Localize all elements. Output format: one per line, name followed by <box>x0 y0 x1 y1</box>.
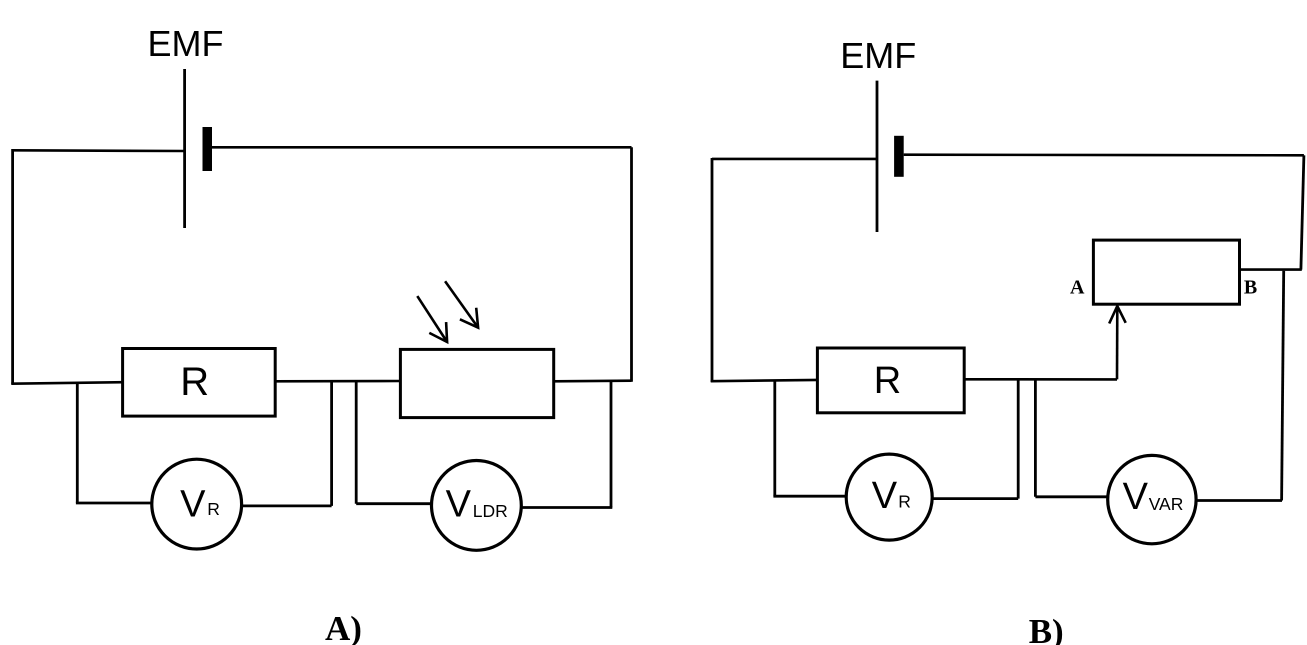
potentiometer box (B) <box>1093 240 1239 304</box>
resistor R box (A) <box>123 349 276 417</box>
wire: jog from pot terminal B to outer right vertical <box>1240 268 1302 271</box>
svg-text:A): A) <box>325 609 362 645</box>
wire: LDR right lead to right side (A) <box>554 379 632 382</box>
svg-text:B): B) <box>1029 612 1064 645</box>
wire: V_VAR left horizontal lead (B) <box>1035 495 1108 498</box>
wire: left side vertical (B) <box>711 158 714 382</box>
wire: inner right vertical down to V_VAR (B) <box>1282 271 1284 501</box>
wire: outer right vertical (B) <box>1301 155 1304 269</box>
wire: right side vertical (A) <box>630 147 633 381</box>
wire: V_R left horizontal lead (A) <box>76 502 152 505</box>
LDR light arrow 2 (head) <box>460 308 478 328</box>
potentiometer wiper arrow (shaft) <box>1116 307 1119 380</box>
wire: V_LDR right horizontal lead (A) <box>522 506 613 509</box>
svg-text:EMF: EMF <box>148 23 224 64</box>
svg-text:EMF: EMF <box>840 35 916 76</box>
potentiometer wiper arrow (head) <box>1109 306 1126 324</box>
wire: bottom-left horizontal into R (A) <box>11 382 123 384</box>
svg-text:VAR: VAR <box>1149 494 1184 514</box>
battery cell B: long thin plate <box>876 81 879 232</box>
battery cell A: long thin plate <box>183 69 186 228</box>
svg-text:V: V <box>1123 476 1149 518</box>
wire: drop from node to V_VAR left lead (B) <box>1034 380 1037 497</box>
voltmeter V_R circle (B) <box>846 454 932 540</box>
svg-text:LDR: LDR <box>473 501 508 521</box>
LDR light arrow 1 (head) <box>429 322 447 342</box>
wire: V_R right horizontal lead (A) <box>242 504 332 507</box>
svg-text:V: V <box>446 484 472 526</box>
battery cell A: short thick plate <box>203 127 213 171</box>
wire: V_VAR right horizontal lead (B) <box>1196 499 1283 502</box>
svg-text:R: R <box>874 360 901 402</box>
svg-text:R: R <box>898 491 911 511</box>
wire: node between R and LDR (A) <box>275 380 400 383</box>
wire: drop from node to V_R right lead (A) <box>330 381 333 506</box>
svg-text:B: B <box>1244 277 1257 299</box>
wire: V_R left horizontal lead (B) <box>773 495 846 498</box>
wire: bottom-left horizontal into R (B) <box>711 380 819 381</box>
svg-text:V: V <box>180 484 206 526</box>
wire: V_LDR left horizontal lead (A) <box>356 502 431 505</box>
LDR light arrow 1 (shaft) <box>417 296 447 342</box>
wire: drop from right side to V_LDR right lead (A) <box>610 381 613 508</box>
wire: R right lead to wiper riser (B) <box>964 378 1117 381</box>
svg-text:A: A <box>1070 276 1085 298</box>
wire: battery B negative plate to top-left corner <box>712 158 877 161</box>
battery cell B: short thick plate <box>894 136 904 177</box>
wire: drop from bottom-left node to V_R left lead (B) <box>773 381 776 496</box>
voltmeter V_VAR circle (B) <box>1108 455 1196 543</box>
wire: drop from bottom-left node to V_R left lead (A) <box>76 384 79 504</box>
svg-text:V: V <box>872 475 898 517</box>
wire: left side vertical (A) <box>11 149 14 384</box>
resistor R box (B) <box>817 348 964 413</box>
voltmeter V_R circle (A) <box>152 459 242 549</box>
wire: V_R right horizontal lead (B) <box>932 497 1019 500</box>
LDR box (A) <box>400 349 553 417</box>
wire: battery B positive plate to top-right corner <box>904 153 1304 156</box>
svg-text:R: R <box>180 360 209 404</box>
wire: drop from node to V_LDR left lead (A) <box>355 381 358 504</box>
wire: battery A positive plate to top-right corner <box>212 146 632 149</box>
LDR light arrow 2 (shaft) <box>445 281 478 327</box>
wire: drop from node to V_R right lead (B) <box>1017 380 1020 499</box>
svg-text:R: R <box>207 499 220 519</box>
wire: battery A negative plate to top-left corner <box>13 149 184 152</box>
voltmeter V_LDR circle (A) <box>432 461 522 551</box>
